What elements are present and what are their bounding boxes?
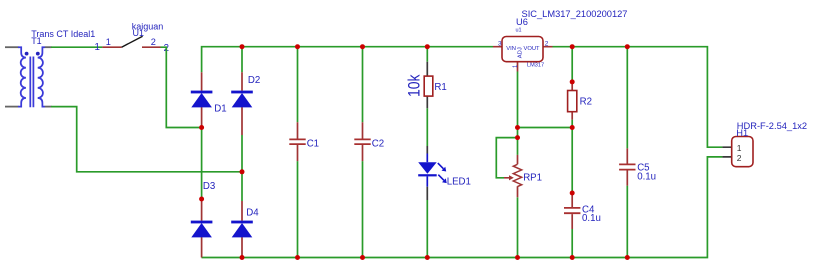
node LED bottom — [425, 255, 430, 260]
svg-text:u1: u1 — [516, 27, 522, 33]
resistor R2 — [568, 82, 592, 120]
U1 lever — [122, 36, 143, 47]
svg-text:SIC_LM317_2100200127: SIC_LM317_2100200127 — [522, 9, 628, 19]
node RP1 bottom — [515, 255, 520, 260]
wire C5 column — [626, 47, 628, 258]
T1 polarity dot left — [25, 52, 29, 56]
node C2 bottom — [360, 255, 365, 260]
T1 left pin stub bottom — [5, 106, 19, 108]
svg-text:10k: 10k — [405, 74, 423, 97]
svg-text:D3: D3 — [203, 181, 215, 192]
T1 right pin stub bottom — [45, 106, 52, 108]
wire RP1 wiper loop — [496, 138, 517, 178]
U1 pin 1 stub — [102, 46, 121, 48]
svg-text:D1: D1 — [214, 103, 226, 114]
node C4 top — [570, 191, 575, 196]
node C1 bottom — [295, 255, 300, 260]
node R1 top — [425, 44, 430, 49]
wire ADJ to R2 bottom — [518, 127, 573, 129]
svg-text:RP1: RP1 — [523, 173, 542, 184]
node ADJ-R2 — [570, 125, 575, 130]
LED LED1 — [418, 146, 471, 200]
svg-text:LED1: LED1 — [447, 176, 471, 187]
svg-text:2: 2 — [545, 41, 549, 48]
svg-text:D2: D2 — [248, 75, 260, 86]
svg-text:LM317: LM317 — [527, 63, 544, 69]
T1 primary winding — [18, 47, 26, 106]
svg-text:0.1u: 0.1u — [637, 172, 656, 183]
svg-text:0.1u: 0.1u — [582, 213, 601, 224]
wire R1/LED column — [426, 47, 428, 258]
resistor R1 — [405, 62, 447, 109]
T1 left pin stub top — [5, 46, 19, 48]
potentiometer RP1 — [504, 155, 542, 197]
svg-text:ADJ: ADJ — [517, 47, 523, 58]
node C5 bottom — [625, 255, 630, 260]
svg-text:3: 3 — [498, 41, 502, 48]
wire top rail (VIN) — [202, 47, 493, 73]
wire T1 bottom to D4 node — [51, 107, 242, 172]
node R2 pin — [570, 79, 575, 84]
node D4 top — [240, 169, 245, 174]
svg-text:H1: H1 — [736, 128, 748, 138]
wire VOUT rail to H1 pin1 — [553, 47, 723, 148]
capacitor C2 — [354, 122, 384, 161]
svg-text:VIN: VIN — [506, 46, 516, 52]
svg-text:VOUT: VOUT — [524, 46, 541, 52]
switch U1 — [95, 22, 169, 54]
svg-text:R2: R2 — [580, 96, 592, 107]
node R2 top — [570, 44, 575, 49]
wire switch to D1 anode — [161, 47, 202, 127]
U1 pin 2 stub — [142, 46, 161, 48]
wire R2 column — [571, 47, 573, 258]
diode D4 — [231, 201, 259, 258]
wire LM317 ADJ column — [517, 72, 519, 155]
T1 polarity dot right — [36, 52, 40, 56]
capacitor C4 — [564, 193, 601, 229]
wire D2 column — [241, 47, 243, 201]
diode D1 — [191, 72, 227, 127]
svg-text:2: 2 — [151, 37, 156, 47]
node C2 top — [360, 44, 365, 49]
node D2 top — [240, 44, 245, 49]
node C1 top — [295, 44, 300, 49]
svg-text:C1: C1 — [307, 138, 319, 149]
wire C2 column — [362, 47, 364, 258]
diode D3 — [191, 181, 215, 258]
transformer T1 — [5, 29, 95, 107]
svg-text:T1: T1 — [31, 36, 42, 46]
wire RP1 bottom — [517, 197, 519, 257]
svg-text:1: 1 — [106, 37, 111, 47]
node RP1 top — [515, 135, 520, 140]
T1 core — [30, 57, 33, 108]
node D1 anode — [199, 125, 204, 130]
node C4 bottom — [570, 255, 575, 260]
T1 right pin stub top — [45, 46, 52, 48]
wire T1 top to switch — [51, 46, 102, 48]
node ADJ — [515, 125, 520, 130]
wire D1 anode to D3 — [201, 128, 203, 200]
capacitor C5 — [619, 148, 656, 185]
regulator U6 LM317 — [493, 9, 627, 72]
node C5 top — [625, 44, 630, 49]
connector H1 — [722, 121, 807, 167]
diode D2 — [231, 72, 260, 135]
T1 secondary winding — [38, 47, 45, 106]
node D4 bottom — [240, 255, 245, 260]
capacitor C1 — [289, 122, 319, 161]
node D3 top — [199, 197, 204, 202]
wire bottom rail (GND) to H1 pin2 — [202, 157, 723, 258]
svg-text:C2: C2 — [372, 138, 384, 149]
svg-text:D4: D4 — [246, 208, 259, 219]
wire C1 column — [297, 47, 299, 258]
svg-text:2: 2 — [737, 153, 742, 163]
svg-text:U6: U6 — [516, 17, 528, 27]
svg-text:1: 1 — [95, 42, 100, 53]
svg-text:1: 1 — [737, 143, 742, 153]
svg-text:U1: U1 — [133, 28, 145, 38]
svg-text:R1: R1 — [434, 82, 446, 93]
